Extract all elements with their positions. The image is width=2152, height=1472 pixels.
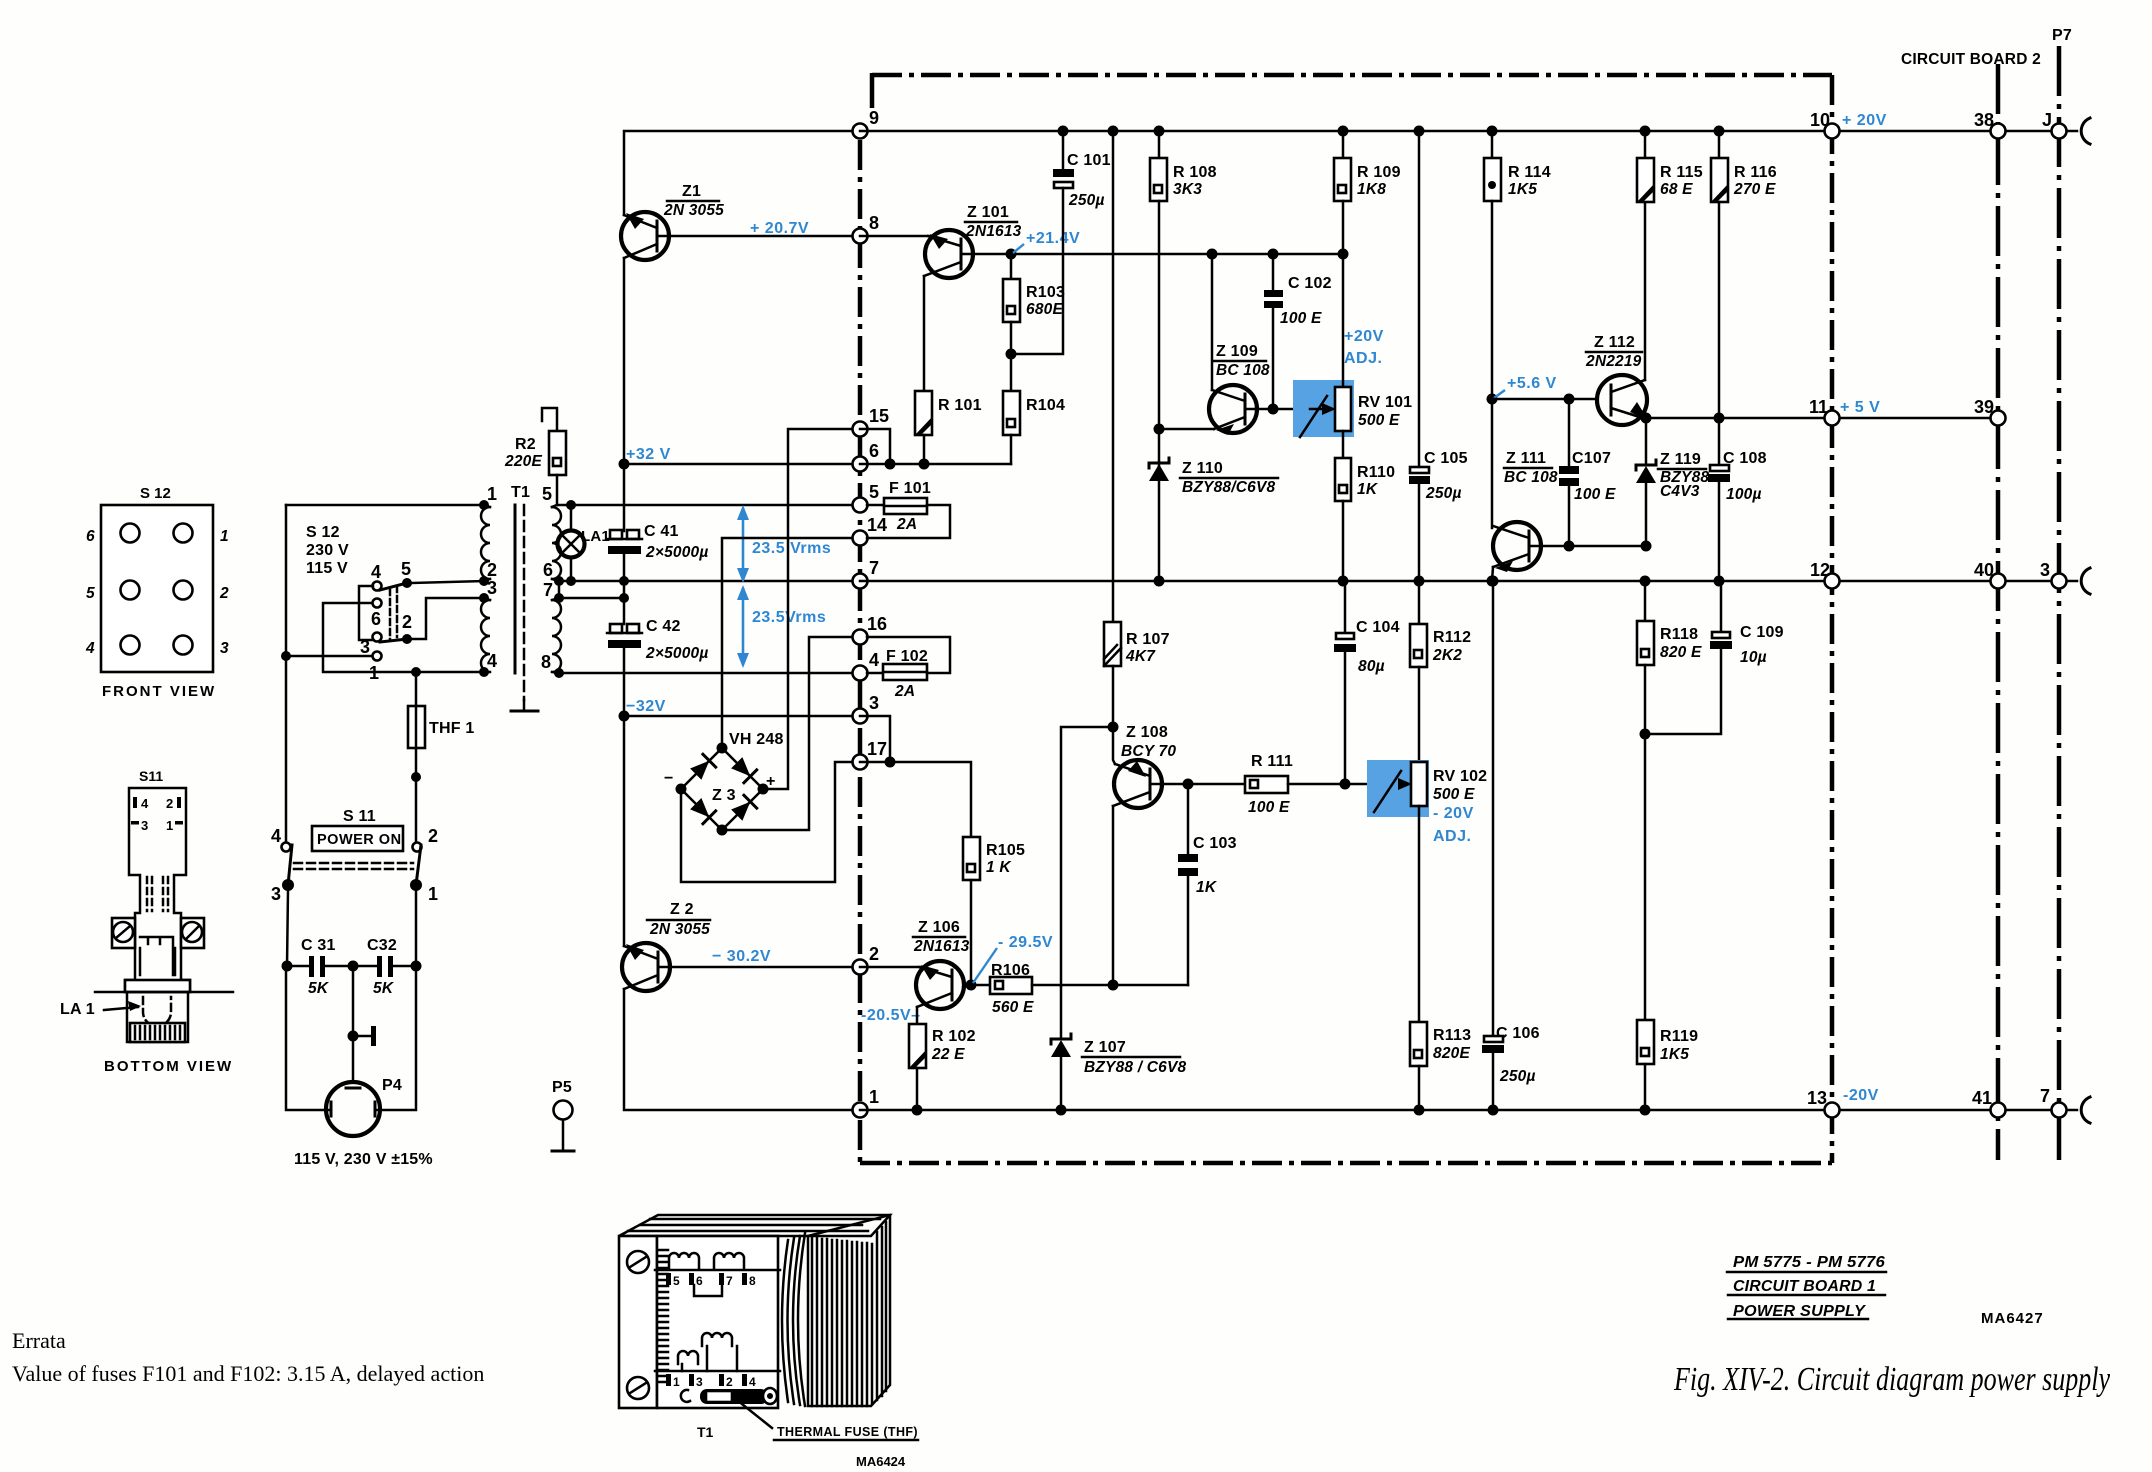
transistor Z1 <box>621 183 724 260</box>
resistor R115 <box>1637 131 1703 202</box>
wire Z109 base to C102/RV101 <box>1247 408 1338 411</box>
svg-text:1K: 1K <box>1196 879 1218 896</box>
svg-text:4: 4 <box>749 1375 756 1389</box>
transformer T1 <box>479 484 564 711</box>
svg-text:R118: R118 <box>1660 626 1698 643</box>
svg-text:S11: S11 <box>139 768 163 784</box>
terminal node 3 (P7) <box>2040 560 2067 589</box>
bridge diode SE <box>731 802 750 821</box>
pictorial top shelf <box>655 1269 780 1272</box>
resistor R102 <box>909 1024 976 1110</box>
junction LA1 bottom <box>566 576 576 586</box>
svg-text:P4: P4 <box>382 1077 402 1094</box>
terminal node 3 <box>853 693 880 724</box>
pictorial winding hatch right curve <box>782 1233 805 1406</box>
svg-text:4: 4 <box>371 562 381 582</box>
svg-text:Z 101: Z 101 <box>967 204 1009 221</box>
svg-text:4: 4 <box>271 826 281 846</box>
resistor R110 <box>1335 458 1395 582</box>
svg-text:3: 3 <box>487 578 497 598</box>
junction top bus R116 <box>1714 126 1725 137</box>
terminal node 41 <box>1972 1088 2006 1118</box>
junction C107 top <box>1564 394 1575 405</box>
transistor Z2 <box>622 901 710 991</box>
transformer T1 pictorial <box>619 1215 918 1469</box>
resistor R119 <box>1637 1020 1698 1110</box>
svg-text:22 E: 22 E <box>931 1046 965 1063</box>
wire -32V down to Z2 <box>623 716 626 946</box>
svg-text:4: 4 <box>869 650 879 670</box>
junction base R103 <box>1006 249 1017 260</box>
junction Z106 base R105 <box>966 980 977 991</box>
wire node13 to node41 to 7 <box>1832 1109 2077 1112</box>
svg-text:POWER SUPPLY: POWER SUPPLY <box>1733 1303 1866 1320</box>
potentiometer RV101 <box>1300 254 1412 458</box>
wire pin7 row to C42 <box>559 597 624 600</box>
blue label +21.4V <box>1013 230 1080 253</box>
resistor R109 <box>1334 131 1401 254</box>
svg-text:R112: R112 <box>1433 629 1471 646</box>
svg-text:BOTTOM VIEW: BOTTOM VIEW <box>104 1058 233 1075</box>
wire bridge plus to node 15 row <box>763 429 860 789</box>
svg-text:41: 41 <box>1972 1088 1992 1108</box>
junction 0V C105/R112 <box>1414 576 1425 587</box>
junction THF1 top on pin4 row <box>411 667 421 677</box>
svg-text:ADJ.: ADJ. <box>1344 350 1382 367</box>
svg-text:820 E: 820 E <box>1660 644 1702 661</box>
terminal node 12 <box>1810 560 1840 589</box>
svg-text:1: 1 <box>869 1087 879 1107</box>
T1 pin 4 <box>479 651 497 677</box>
wire +5V row <box>1646 417 1832 420</box>
junction +5.6V row <box>1487 394 1498 405</box>
junction Z111 base Z119 <box>1641 541 1652 552</box>
svg-text:+5.6 V: +5.6 V <box>1507 375 1557 392</box>
svg-text:820E: 820E <box>1433 1045 1470 1062</box>
svg-text:1K5: 1K5 <box>1660 1046 1689 1063</box>
terminal node 17 <box>853 739 888 770</box>
wire T1 pin5 node <box>552 505 571 507</box>
svg-text:4: 4 <box>141 796 149 811</box>
junction top bus C105 <box>1414 126 1425 137</box>
svg-text:C107: C107 <box>1572 450 1611 467</box>
svg-text:C 105: C 105 <box>1424 450 1468 467</box>
wire Z106 collector to R102 <box>916 1007 919 1024</box>
svg-text:1: 1 <box>673 1375 680 1389</box>
junction LA1 top <box>566 500 576 510</box>
wire C41 bottom to C42 top <box>623 581 626 624</box>
resistor R104 <box>1003 391 1065 464</box>
wire node12 to node40 to 3 <box>1832 580 2077 583</box>
T1 pin 1 <box>479 484 497 510</box>
svg-text:2: 2 <box>869 944 879 964</box>
resistor R107 <box>1104 131 1170 726</box>
svg-text:2N1613: 2N1613 <box>913 938 970 955</box>
errata text <box>12 1328 484 1386</box>
svg-text:Z 119: Z 119 <box>1660 451 1701 468</box>
wire bridge minus to node 17 row <box>681 762 860 882</box>
junction R118 C109 <box>1640 729 1651 740</box>
switch S12 contact 5 <box>401 559 412 588</box>
svg-text:R119: R119 <box>1660 1028 1698 1045</box>
svg-text:3K3: 3K3 <box>1173 181 1202 198</box>
svg-text:12: 12 <box>1810 560 1830 580</box>
fuse THF1 <box>408 672 474 778</box>
svg-text:-20V: -20V <box>1843 1087 1879 1104</box>
wire +32V row to node 6 <box>624 463 860 466</box>
wire bridge bottom to node 16 row <box>722 637 860 830</box>
terminal node 7 <box>853 558 880 589</box>
terminal node 8 <box>853 213 880 244</box>
switch S12 coupling dashed <box>390 586 397 640</box>
switch S12 blade 4-5 <box>380 583 407 590</box>
svg-text:270 E: 270 E <box>1733 181 1776 198</box>
resistor R106 <box>971 962 1188 1016</box>
capacitor C105 <box>1409 131 1468 582</box>
T1 core ground <box>511 700 538 711</box>
svg-text:2A: 2A <box>894 683 915 700</box>
transistor Z109 <box>1209 343 1270 435</box>
svg-text:1: 1 <box>428 884 438 904</box>
terminal node 39 <box>1974 397 2006 426</box>
pictorial bottom shelf <box>655 1370 780 1373</box>
svg-text:Z 112: Z 112 <box>1594 334 1635 351</box>
svg-text:MA6427: MA6427 <box>1981 1310 2044 1327</box>
svg-text:5K: 5K <box>373 980 395 997</box>
svg-text:− 30.2V: − 30.2V <box>712 948 771 965</box>
circuit board 2 border line (dash-dot vertical) <box>1996 64 2001 1160</box>
junction top bus R114 <box>1487 126 1498 137</box>
T1 pin 8 <box>541 652 564 678</box>
junction top bus C101 <box>1058 126 1069 137</box>
svg-text:R 116: R 116 <box>1734 164 1777 181</box>
capacitor C103 <box>1178 784 1237 896</box>
svg-text:- 20V: - 20V <box>1433 805 1474 822</box>
wire Z2 emitter down to row1 <box>624 989 860 1110</box>
terminal node J <box>2042 110 2067 139</box>
pictorial thermal fuse body <box>681 1388 777 1404</box>
junction C32 right <box>411 961 422 972</box>
rectifier bridge VH248 <box>664 731 784 830</box>
chassis stub <box>353 1026 376 1046</box>
terminal node 11 <box>1809 397 1840 426</box>
svg-text:THERMAL FUSE (THF): THERMAL FUSE (THF) <box>777 1425 918 1439</box>
junction 0V R118 <box>1640 576 1651 587</box>
svg-text:Z 110: Z 110 <box>1182 460 1223 477</box>
svg-text:ADJ.: ADJ. <box>1433 828 1471 845</box>
junction C31 left <box>282 961 293 972</box>
junction bridge right <box>758 784 769 795</box>
blue highlight RV101 <box>1293 380 1354 437</box>
capacitor C104 <box>1334 581 1400 784</box>
svg-text:Z 108: Z 108 <box>1126 724 1168 741</box>
svg-text:MA6424: MA6424 <box>856 1454 906 1469</box>
terminal node 14 <box>853 515 888 546</box>
svg-text:VH 248: VH 248 <box>729 731 784 748</box>
transistor Z106 <box>913 919 970 1009</box>
wire +32V row inside board <box>860 463 1011 466</box>
svg-text:10µ: 10µ <box>1740 649 1767 666</box>
svg-text:S 11: S 11 <box>343 808 376 825</box>
svg-text:5: 5 <box>86 585 95 602</box>
terminal node 5 <box>853 482 880 513</box>
svg-text:R105: R105 <box>986 842 1025 859</box>
wire Z109 emitter row <box>1159 428 1214 431</box>
wire S12 pin1 feed <box>286 504 484 507</box>
connector P7 line (dash-dot vertical) <box>2057 46 2062 1160</box>
transistor Z108 <box>1113 724 1176 808</box>
svg-text:68 E: 68 E <box>1660 181 1693 198</box>
svg-text:J: J <box>2042 110 2052 130</box>
svg-text:C 31: C 31 <box>301 937 336 954</box>
svg-text:100µ: 100µ <box>1726 486 1762 503</box>
wire Z112 collector up to R115 <box>1644 202 1647 380</box>
wire node10 to node38 to J <box>1832 130 2077 133</box>
T1 secondary winding 7-8 <box>552 598 561 673</box>
svg-text:-20.5V–: -20.5V– <box>861 1007 921 1024</box>
wire node2 to Z106 emitter <box>860 966 921 969</box>
svg-text:R104: R104 <box>1026 397 1065 414</box>
svg-text:BZY88 / C6V8: BZY88 / C6V8 <box>1084 1059 1187 1076</box>
capacitor C106 <box>1482 581 1540 1110</box>
svg-text:C 101: C 101 <box>1067 152 1111 169</box>
blue label +5.6V <box>1494 375 1557 398</box>
wire -20V row inside board <box>860 1109 1832 1112</box>
capacitor C32 <box>353 937 416 997</box>
wire node11 to node39 <box>1832 417 1998 420</box>
junction Z111 base C107 <box>1564 541 1575 552</box>
svg-text:T1: T1 <box>511 484 530 501</box>
pictorial thermal fuse pointer <box>742 1404 772 1428</box>
svg-text:13: 13 <box>1807 1088 1827 1108</box>
junction top bus R107 <box>1108 126 1119 137</box>
svg-text:+20V: +20V <box>1344 328 1384 345</box>
junction top bus R109 <box>1338 126 1349 137</box>
svg-text:4: 4 <box>487 651 497 671</box>
junction C41 bottom row7 <box>619 576 629 586</box>
junction C31/C32 mid <box>348 961 359 972</box>
svg-text:R 107: R 107 <box>1126 631 1170 648</box>
blue highlight RV102 <box>1367 760 1429 817</box>
svg-text:2: 2 <box>219 585 229 602</box>
svg-text:R 109: R 109 <box>1357 164 1401 181</box>
junction R101 bottom <box>919 459 930 470</box>
svg-text:C4V3: C4V3 <box>1660 483 1700 500</box>
svg-text:10: 10 <box>1810 110 1830 130</box>
svg-text:LA 1: LA 1 <box>60 1001 95 1018</box>
wire Z108 emitter up <box>1113 727 1115 764</box>
svg-text:THF 1: THF 1 <box>429 720 474 737</box>
svg-text:F 102: F 102 <box>886 648 928 665</box>
svg-text:7: 7 <box>543 580 553 600</box>
wire S12 contact5 to T1 pin2 <box>412 581 484 583</box>
svg-text:−32V: −32V <box>626 698 666 715</box>
blue label -29.5V <box>973 934 1053 983</box>
junction R106 wire Z108 collector <box>1108 980 1119 991</box>
wire 0V bus row <box>860 580 1832 583</box>
svg-text:1K5: 1K5 <box>1508 181 1537 198</box>
junction Z112 emitter <box>1641 413 1652 424</box>
svg-text:14: 14 <box>867 515 887 535</box>
terminal node 13 <box>1807 1088 1840 1118</box>
plug P4 <box>326 1077 402 1136</box>
switch S11 contact 4 <box>271 826 291 852</box>
svg-text:T1: T1 <box>697 1424 714 1440</box>
zener Z119 <box>1636 418 1709 546</box>
lamp LA1 <box>558 505 610 581</box>
svg-text:100 E: 100 E <box>1574 486 1616 503</box>
terminal P5 <box>552 1079 574 1151</box>
transistor Z111 <box>1493 450 1558 572</box>
wire Z111 base row <box>1531 545 1646 548</box>
wire Z107 top to Z108 junction <box>1061 727 1113 986</box>
svg-text:16: 16 <box>867 614 887 634</box>
svg-text:5: 5 <box>542 484 552 504</box>
svg-text:CIRCUIT BOARD 2: CIRCUIT BOARD 2 <box>1901 51 2041 68</box>
wire S12 contact2 to T1 pin3 <box>412 598 484 639</box>
svg-text:2: 2 <box>487 560 497 580</box>
junction bridge bottom <box>717 825 728 836</box>
svg-text:8: 8 <box>749 1274 756 1288</box>
pictorial top coils <box>669 1253 699 1268</box>
zener Z110 <box>1149 458 1278 582</box>
svg-text:40: 40 <box>1974 560 1994 580</box>
svg-text:FRONT VIEW: FRONT VIEW <box>102 683 216 700</box>
junction R111 C104 <box>1340 779 1351 790</box>
resistor R118 <box>1637 581 1702 1020</box>
svg-text:Z 3: Z 3 <box>712 787 736 804</box>
terminal node 2 <box>853 944 880 975</box>
pictorial top pins 5 6 7 8 <box>666 1273 756 1296</box>
capacitor C101 <box>1011 131 1111 354</box>
svg-text:Errata: Errata <box>12 1328 66 1353</box>
capacitor C109 <box>1645 581 1784 734</box>
junction +32V <box>619 459 630 470</box>
capacitor C42 <box>607 618 708 716</box>
junction THF1 bottom <box>411 772 421 782</box>
wire S12 contact6 to T1 pin4 row <box>323 603 484 672</box>
terminal node 10 <box>1810 110 1840 139</box>
junction bridge top <box>717 743 728 754</box>
resistor R101 <box>915 391 982 464</box>
blue label +20V ADJ <box>1344 328 1384 367</box>
wire T1 pins 6-7 tie <box>558 581 561 598</box>
svg-text:Z 111: Z 111 <box>1506 450 1546 467</box>
wire Z111 emitter to 0V <box>1492 567 1493 581</box>
svg-text:C32: C32 <box>367 937 397 954</box>
resistor R103 <box>1003 254 1065 391</box>
svg-text:R 108: R 108 <box>1173 164 1217 181</box>
svg-text:Fig. XIV-2. Circuit diagram po: Fig. XIV-2. Circuit diagram power supply <box>1673 1361 2110 1398</box>
svg-text:2×5000µ: 2×5000µ <box>645 544 708 561</box>
svg-text:R110: R110 <box>1357 464 1395 481</box>
terminal node 1 <box>853 1087 880 1118</box>
svg-text:1: 1 <box>166 818 173 833</box>
T1 pin 3 <box>479 578 497 603</box>
svg-text:- 29.5V: - 29.5V <box>998 934 1053 951</box>
wire bridge top to node 14 row <box>722 538 860 748</box>
blue label -20V ADJ <box>1433 805 1474 845</box>
pictorial front face <box>657 1236 778 1408</box>
svg-text:C 41: C 41 <box>644 523 679 540</box>
svg-text:9: 9 <box>869 108 879 128</box>
wire THF1 to S11 contact 2 <box>415 777 418 841</box>
junction node15 link <box>885 459 896 470</box>
svg-text:500 E: 500 E <box>1433 786 1475 803</box>
svg-text:+ 20.7V: + 20.7V <box>750 220 809 237</box>
svg-text:6: 6 <box>696 1274 703 1288</box>
svg-text:4: 4 <box>85 640 95 657</box>
wire node 8 to Z101 emitter <box>860 235 930 238</box>
connector S12 front view <box>101 485 213 672</box>
switch S11 contact 1 <box>410 879 438 904</box>
wire Z109 collector up to +21.4V row <box>1211 254 1214 390</box>
svg-text:BC 108: BC 108 <box>1216 362 1270 379</box>
svg-text:17: 17 <box>867 739 887 759</box>
svg-text:C 103: C 103 <box>1193 835 1237 852</box>
connector arc 3 <box>2081 568 2090 594</box>
svg-text:7: 7 <box>869 558 879 578</box>
terminal node 6 <box>853 441 880 472</box>
svg-text:R103: R103 <box>1026 284 1065 301</box>
junction R107 Z108 emitter <box>1108 722 1119 733</box>
junction R116 C108 <box>1714 413 1725 424</box>
terminal node 40 <box>1974 560 2006 589</box>
svg-text:6: 6 <box>86 528 95 545</box>
resistor R105 <box>963 837 1025 985</box>
svg-text:230 V: 230 V <box>306 542 349 559</box>
connector S11 bottom view drawing <box>95 768 233 1042</box>
resistor R114 <box>1484 131 1551 528</box>
pictorial left plate <box>619 1236 657 1408</box>
svg-text:250µ: 250µ <box>1499 1068 1536 1085</box>
svg-text:R 111: R 111 <box>1251 753 1293 770</box>
svg-text:C 109: C 109 <box>1740 624 1784 641</box>
wire Z108 collector down <box>1112 806 1115 985</box>
svg-text:5K: 5K <box>308 980 330 997</box>
wire node3 link to node17 row <box>860 716 890 762</box>
label THERMAL FUSE (THF) <box>774 1425 918 1440</box>
svg-text:1 K: 1 K <box>986 859 1012 876</box>
resistor R108 <box>1150 131 1217 462</box>
switch S11 contact 2 <box>413 826 439 852</box>
wire -32V row to node 3 <box>624 715 860 718</box>
svg-text:2: 2 <box>726 1375 733 1389</box>
T1 primary winding 3-4 <box>481 598 490 672</box>
wire S12 contact1 to mains left <box>286 655 372 658</box>
junction row1 Z107 <box>1056 1105 1067 1116</box>
svg-text:2N 3055: 2N 3055 <box>663 202 724 219</box>
svg-text:R 114: R 114 <box>1508 164 1551 181</box>
svg-text:5: 5 <box>401 559 411 579</box>
wire row5 to node 5 <box>571 504 860 507</box>
junction C102 top <box>1268 249 1279 260</box>
svg-text:100 E: 100 E <box>1248 799 1290 816</box>
circuit board 1 top-left corner stub <box>870 73 875 108</box>
junction row1 R102 <box>912 1105 923 1116</box>
label S11 POWER ON <box>312 808 403 851</box>
junction 0V Z110 <box>1154 576 1165 587</box>
junction R109 RV101 top <box>1338 249 1349 260</box>
svg-text:R 115: R 115 <box>1660 164 1703 181</box>
svg-text:BZY88/C6V8: BZY88/C6V8 <box>1182 479 1275 496</box>
svg-text:6: 6 <box>543 560 553 580</box>
potentiometer RV102 <box>1374 762 1487 1022</box>
svg-text:2N2219: 2N2219 <box>1585 353 1642 370</box>
svg-text:Z 106: Z 106 <box>918 919 960 936</box>
svg-text:6: 6 <box>371 609 381 629</box>
svg-text:Z1: Z1 <box>682 183 701 200</box>
